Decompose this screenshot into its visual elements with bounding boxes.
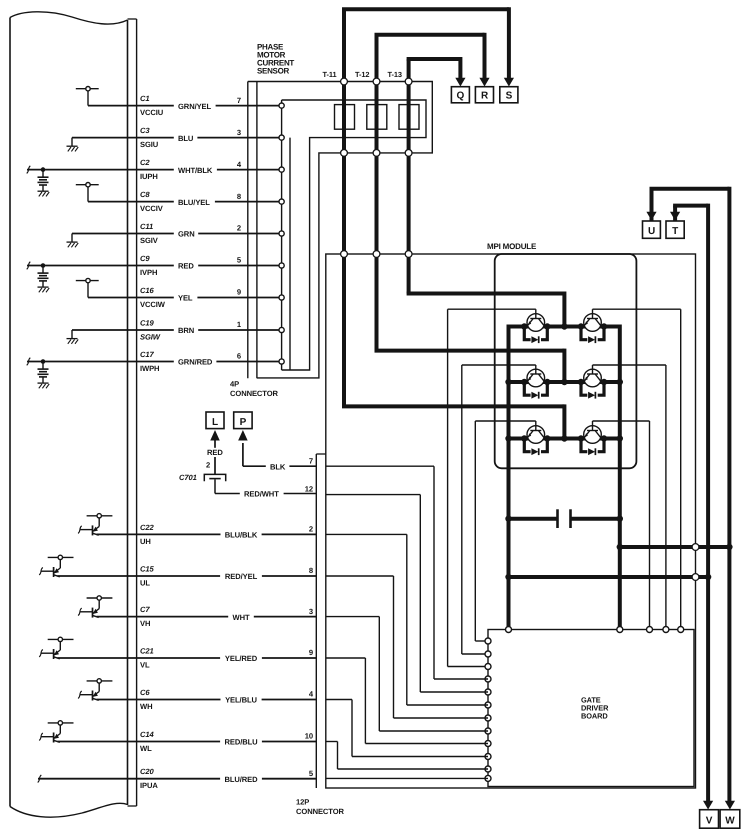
svg-text:IPUA: IPUA [140, 781, 158, 790]
wire to T terminal [673, 204, 708, 801]
DC link capacitor [505, 509, 623, 528]
power block rounded outline [495, 254, 637, 468]
svg-text:4P: 4P [230, 380, 239, 389]
svg-text:BRN: BRN [178, 326, 194, 335]
svg-text:WHT/BLK: WHT/BLK [178, 166, 213, 175]
connector pin C22 UH wire (BLU/BLK) to 12P pin 2 [78, 514, 316, 546]
grommet circles on MPI top edge [341, 251, 412, 258]
12P pin 12 wire to gate board [326, 495, 488, 692]
svg-text:10: 10 [305, 732, 313, 741]
svg-text:RED: RED [207, 448, 223, 457]
svg-text:VCCIV: VCCIV [140, 204, 164, 213]
svg-text:SGIW: SGIW [140, 333, 161, 342]
svg-text:P: P [240, 417, 247, 428]
bridge row 2 bus [509, 380, 620, 384]
svg-text:C22: C22 [140, 523, 155, 532]
current transformer core T-12 [367, 105, 387, 130]
connector pin C6 WH wire (YEL/BLU) to 12P pin 4 [78, 679, 316, 711]
svg-text:GRN/RED: GRN/RED [178, 358, 213, 367]
svg-text:CONNECTOR: CONNECTOR [296, 807, 345, 816]
connector pin C7 VH wire (WHT) to 12P pin 3 [78, 596, 316, 628]
svg-text:C14: C14 [140, 730, 155, 739]
svg-text:C1: C1 [140, 94, 150, 103]
svg-text:UL: UL [140, 579, 150, 588]
svg-text:RED/WHT: RED/WHT [244, 490, 279, 499]
MPI module box [326, 254, 696, 788]
phase motor current sensor outline [248, 82, 432, 378]
connector pin C1 VCCIU wire (GRN/YEL) to 4P pin 7 [76, 87, 282, 118]
svg-text:C17: C17 [140, 350, 155, 359]
svg-text:3: 3 [309, 607, 313, 616]
svg-text:C8: C8 [140, 190, 150, 199]
connector pin C16 VCCIW wire (YEL) to 4P pin 9 [76, 278, 282, 309]
gate driver board label [581, 696, 609, 721]
arrow into R [479, 78, 489, 87]
diode D4 [581, 382, 604, 399]
IGBT Q5 [527, 426, 545, 444]
current transformer core T-11 [335, 105, 355, 130]
left DC bus (negative rail) [505, 325, 511, 630]
svg-text:WHT: WHT [233, 613, 250, 622]
arrow into V [703, 801, 713, 810]
module connector strip [128, 19, 137, 806]
svg-text:C6: C6 [140, 688, 150, 697]
terminal box L [206, 412, 224, 429]
bridge row 3 bus [509, 437, 620, 441]
svg-text:VL: VL [140, 661, 150, 670]
row 1 junction dots [521, 323, 607, 329]
gate board top edge pin circles [506, 627, 684, 633]
terminal box U [643, 221, 661, 238]
gate board left edge pin circles [485, 638, 491, 781]
connector pin C8 VCCIV wire (BLU/YEL) to 4P pin 8 [76, 183, 282, 214]
svg-text:BLU/YEL: BLU/YEL [178, 198, 210, 207]
svg-text:2: 2 [237, 224, 241, 233]
svg-text:WL: WL [140, 744, 152, 753]
svg-text:GRN/YEL: GRN/YEL [178, 102, 212, 111]
arrow into T [670, 212, 680, 221]
svg-text:RED/YEL: RED/YEL [225, 572, 258, 581]
svg-text:7: 7 [237, 96, 241, 105]
svg-text:BLU/BLK: BLU/BLK [225, 531, 258, 540]
terminal box Q [451, 87, 469, 103]
svg-text:C2: C2 [140, 158, 150, 167]
svg-text:RED: RED [178, 262, 194, 271]
diode D2 [581, 327, 604, 344]
connector pin C11 SGIV wire (GRN) to 4P pin 2 [67, 222, 282, 247]
arrow into S [504, 78, 514, 87]
svg-text:VCCIW: VCCIW [140, 300, 166, 309]
sensor connector pin circles [279, 103, 284, 364]
svg-text:UH: UH [140, 537, 151, 546]
terminal box R [475, 87, 493, 103]
12P pin 2 wire to gate board [326, 534, 488, 705]
12P pin 10 wire to gate board [326, 742, 488, 770]
svg-text:T-12: T-12 [355, 70, 369, 79]
svg-text:BLU/RED: BLU/RED [224, 775, 258, 784]
svg-text:C9: C9 [140, 254, 150, 263]
grommet circles on sensor box (T-11 T-12 T-13) [341, 78, 412, 156]
svg-text:RED/BLU: RED/BLU [224, 738, 258, 747]
svg-text:T: T [672, 226, 678, 237]
svg-text:YEL: YEL [178, 294, 193, 303]
sensor label [257, 42, 294, 75]
12P pin 5 wire to gate board [326, 777, 488, 779]
current transformer core T-13 [399, 105, 419, 130]
svg-text:C20: C20 [140, 767, 155, 776]
terminal box P [234, 412, 252, 429]
terminal box V [700, 810, 719, 829]
svg-text:S: S [506, 91, 513, 102]
IGBT Q4 [584, 369, 602, 387]
gate wire right IGBT row 3 [593, 421, 650, 630]
IGBT Q2 [584, 314, 602, 332]
phase wire T-13 to top bridge row [407, 292, 565, 327]
svg-text:9: 9 [237, 288, 241, 297]
negative bus link to V wire [505, 574, 711, 581]
arrow into Q [455, 78, 465, 87]
motor phase wire T-11 to S [342, 7, 509, 406]
svg-text:12: 12 [305, 485, 313, 494]
svg-text:MPI MODULE: MPI MODULE [487, 242, 537, 251]
svg-text:9: 9 [309, 648, 313, 657]
12P pin 7 wire to gate board [326, 466, 488, 679]
connector pin C14 WL wire (RED/BLU) to 12P pin 10 [39, 721, 316, 753]
terminal labels T-11 T-12 T-13 [323, 70, 402, 79]
connector pin C17 IWPH wire (GRN/RED) to 4P pin 6 [27, 350, 282, 388]
gate wire left IGBT row 1 [448, 309, 536, 666]
terminal box W [720, 810, 740, 829]
svg-text:T-11: T-11 [323, 70, 337, 79]
12P pin 9 wire to gate board [326, 658, 488, 744]
svg-text:SGIV: SGIV [140, 236, 159, 245]
arrow into L [210, 430, 220, 474]
motor phase wire T-12 to R [375, 33, 485, 351]
svg-text:IVPH: IVPH [140, 268, 157, 277]
svg-text:YEL/BLU: YEL/BLU [225, 696, 257, 705]
phase wire T-11 to bottom bridge row [342, 404, 564, 438]
RED label [203, 448, 227, 457]
svg-text:7: 7 [309, 456, 313, 465]
capacitor C701 [179, 473, 226, 482]
BLK wire from P [243, 443, 316, 471]
svg-text:BOARD: BOARD [581, 712, 608, 721]
diode D1 [524, 327, 547, 344]
terminal box T [666, 221, 684, 238]
svg-text:C16: C16 [140, 286, 155, 295]
left control module outline (torn-edge box) [10, 12, 128, 817]
C701 pin 2 label [206, 461, 210, 470]
row 3 junction dots [521, 435, 607, 441]
gate driver board box [488, 630, 694, 787]
right DC bus (positive rail) [617, 325, 623, 630]
svg-text:IUPH: IUPH [140, 172, 158, 181]
svg-text:C11: C11 [140, 222, 153, 231]
IGBT Q3 [527, 369, 545, 387]
gate wire left IGBT row 2 [462, 365, 536, 654]
arrow into P [238, 430, 248, 441]
4P connector [230, 82, 279, 398]
positive bus link to W wire [617, 544, 733, 551]
gate wire left IGBT row 3 [475, 421, 536, 641]
svg-text:VCCIU: VCCIU [140, 108, 164, 117]
arrow into W [725, 801, 735, 810]
12P pin 3 wire to gate board [326, 617, 488, 731]
svg-text:C7: C7 [140, 605, 150, 614]
svg-text:GRN: GRN [178, 230, 195, 239]
svg-text:WH: WH [140, 702, 152, 711]
12P pin 4 wire to gate board [326, 700, 488, 757]
IGBT Q1 [527, 314, 545, 332]
svg-text:C701: C701 [179, 473, 197, 482]
connector pin C9 IVPH wire (RED) to 4P pin 5 [27, 254, 282, 292]
svg-text:L: L [212, 417, 218, 428]
svg-text:2: 2 [206, 461, 210, 470]
svg-text:C3: C3 [140, 126, 150, 135]
svg-text:R: R [481, 91, 489, 102]
bridge row 1 bus [509, 325, 620, 329]
svg-text:8: 8 [237, 192, 241, 201]
wire to U terminal [650, 187, 730, 801]
diode D3 [524, 382, 547, 399]
svg-text:SENSOR: SENSOR [257, 66, 290, 75]
svg-text:BLU: BLU [178, 134, 194, 143]
svg-text:U: U [648, 226, 655, 237]
svg-text:SGIU: SGIU [140, 140, 159, 149]
gate wire right IGBT row 1 [593, 309, 681, 629]
connector pin C3 SGIU wire (BLU) to 4P pin 3 [67, 126, 282, 151]
diode D5 [524, 439, 547, 456]
svg-text:V: V [706, 815, 713, 826]
arrow into U [646, 212, 656, 221]
connector pin C21 VL wire (YEL/RED) to 12P pin 9 [39, 637, 316, 669]
RED/WHT wire from C701 [215, 479, 316, 498]
IGBT Q6 [584, 426, 602, 444]
svg-text:8: 8 [309, 566, 313, 575]
svg-text:C15: C15 [140, 565, 155, 574]
gate wire right IGBT row 2 [593, 365, 666, 630]
phase wire T-12 to middle bridge row [375, 349, 565, 382]
motor phase wire T-13 to Q [407, 57, 461, 294]
svg-text:T-13: T-13 [388, 70, 402, 79]
svg-text:VH: VH [140, 619, 150, 628]
svg-text:Q: Q [457, 91, 465, 102]
row 2 junction dots [521, 379, 607, 385]
connector pin C20 IPUA wire (BLU/RED) to 12P pin 5 [38, 767, 317, 790]
MPI module label [487, 242, 537, 251]
svg-text:YEL/RED: YEL/RED [225, 654, 258, 663]
svg-text:2: 2 [309, 525, 313, 534]
connector pin C15 UL wire (RED/YEL) to 12P pin 8 [39, 555, 316, 587]
svg-text:12P: 12P [296, 798, 309, 807]
svg-text:IWPH: IWPH [140, 364, 159, 373]
svg-text:C21: C21 [140, 647, 154, 656]
connector pin C19 SGIW wire (BRN) to 4P pin 1 [67, 319, 282, 344]
svg-text:3: 3 [237, 128, 241, 137]
connector pin C2 IUPH wire (WHT/BLK) to 4P pin 4 [27, 158, 282, 196]
terminal box S [500, 87, 518, 103]
diode D6 [581, 439, 604, 456]
svg-text:6: 6 [237, 352, 241, 361]
12P pin 8 wire to gate board [326, 576, 488, 718]
svg-text:W: W [725, 815, 735, 826]
svg-text:C19: C19 [140, 319, 155, 328]
svg-text:CONNECTOR: CONNECTOR [230, 389, 279, 398]
12P connector [296, 454, 345, 816]
svg-text:BLK: BLK [270, 462, 286, 471]
